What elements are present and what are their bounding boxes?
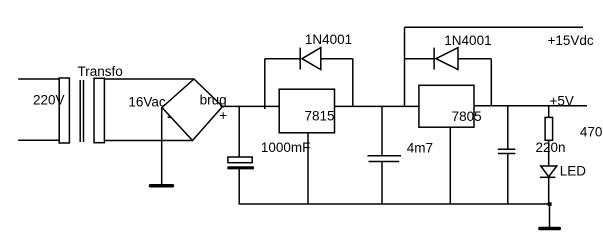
- ground symbol left: [149, 184, 174, 188]
- diode D2 1N4001 triangle: [436, 48, 458, 70]
- wire 7815 output to 7805 input: [335, 105, 419, 107]
- svg-text:+5V: +5V: [550, 93, 574, 108]
- wire 220n top lead: [507, 106, 509, 150]
- regulator U2 7805 box: [419, 85, 474, 127]
- svg-text:4m7: 4m7: [407, 141, 433, 156]
- wire loop2 left vertical to +15Vdc rail: [404, 27, 406, 106]
- wire 7805 ground pin: [449, 127, 451, 204]
- junction loop1 left vertical stub: [264, 106, 266, 109]
- diode D2 1N4001 cathode bar: [433, 48, 435, 70]
- diode D1 1N4001 triangle: [302, 48, 321, 70]
- LED D3 cathode bar: [540, 176, 555, 178]
- diode D1 loop top wire left: [265, 58, 300, 60]
- resistor R1 470 body: [545, 117, 553, 140]
- ground rail bottom: [239, 203, 550, 205]
- diode D2 loop top wire left: [405, 58, 435, 60]
- minus sign at bridge: [168, 116, 172, 118]
- svg-text:LED: LED: [560, 164, 587, 179]
- bridge rectifier "brug" diamond: [162, 79, 223, 141]
- svg-text:470: 470: [580, 125, 603, 140]
- svg-text:1N4001: 1N4001: [305, 32, 352, 47]
- diode D1 loop left vertical: [264, 59, 266, 106]
- wire bridge + output to 7815 input: [223, 105, 280, 107]
- svg-text:1N4001: 1N4001: [444, 33, 491, 48]
- wire bridge negative to ground: [161, 108, 163, 185]
- diode D1 loop right vertical: [352, 59, 354, 106]
- wire 220V input top: [18, 78, 59, 80]
- svg-text:Transfo: Transfo: [78, 64, 123, 79]
- svg-text:+15Vdc: +15Vdc: [548, 33, 594, 48]
- LED D3 triangle: [541, 166, 557, 177]
- svg-text:+: +: [219, 108, 227, 123]
- diode D2 loop right vertical: [490, 59, 492, 106]
- svg-text:7815: 7815: [305, 109, 335, 124]
- wire resistor top lead: [548, 106, 550, 118]
- capacitor C2 4m7 bottom plate: [369, 161, 400, 163]
- svg-text:1000mF: 1000mF: [261, 140, 311, 155]
- svg-text:brug: brug: [200, 92, 227, 107]
- svg-text:16Vac: 16Vac: [128, 94, 166, 109]
- wire LED to ground rail: [548, 177, 550, 204]
- wire 1000mF bottom lead: [238, 169, 240, 204]
- wire 4m7 bottom lead: [381, 162, 383, 205]
- wire ground stub right: [549, 204, 551, 227]
- transformer T1 primary winding: [59, 78, 69, 143]
- wire 4m7 top lead: [381, 106, 383, 156]
- wire resistor to LED: [548, 140, 550, 166]
- transformer core line 1: [79, 80, 81, 142]
- wire 1000mF top lead: [238, 106, 240, 157]
- junction dot ground rail right: [548, 202, 552, 206]
- diode D1 1N4001 cathode bar: [299, 48, 301, 70]
- capacitor C1 1000mF bottom plate: [227, 166, 254, 169]
- regulator U1 7815 box: [279, 89, 334, 133]
- ground symbol right: [538, 227, 561, 230]
- capacitor C1 1000mF electrolytic top plate: [228, 157, 252, 163]
- svg-text:220V: 220V: [33, 92, 65, 107]
- transformer core line 2: [83, 80, 85, 142]
- transformer T1 secondary winding: [94, 78, 104, 142]
- diode D2 loop top wire right: [458, 58, 491, 60]
- wire +15Vdc top rail: [405, 26, 584, 28]
- wire secondary top to bridge: [104, 78, 194, 80]
- wire 7805 output to +5V: [474, 105, 587, 107]
- capacitor C2 4m7 top plate: [368, 155, 402, 157]
- diode D1 loop top wire right: [321, 58, 353, 60]
- wire 220V input bottom: [18, 139, 59, 141]
- capacitor C3 220n top plate: [498, 148, 516, 150]
- svg-text:7805: 7805: [452, 109, 482, 124]
- wire 220n bottom lead: [507, 154, 509, 205]
- capacitor C3 220n bottom plate: [498, 153, 516, 155]
- svg-text:220n: 220n: [536, 140, 566, 155]
- wire 7815 ground pin: [307, 133, 309, 204]
- wire secondary bottom to bridge: [104, 140, 192, 142]
